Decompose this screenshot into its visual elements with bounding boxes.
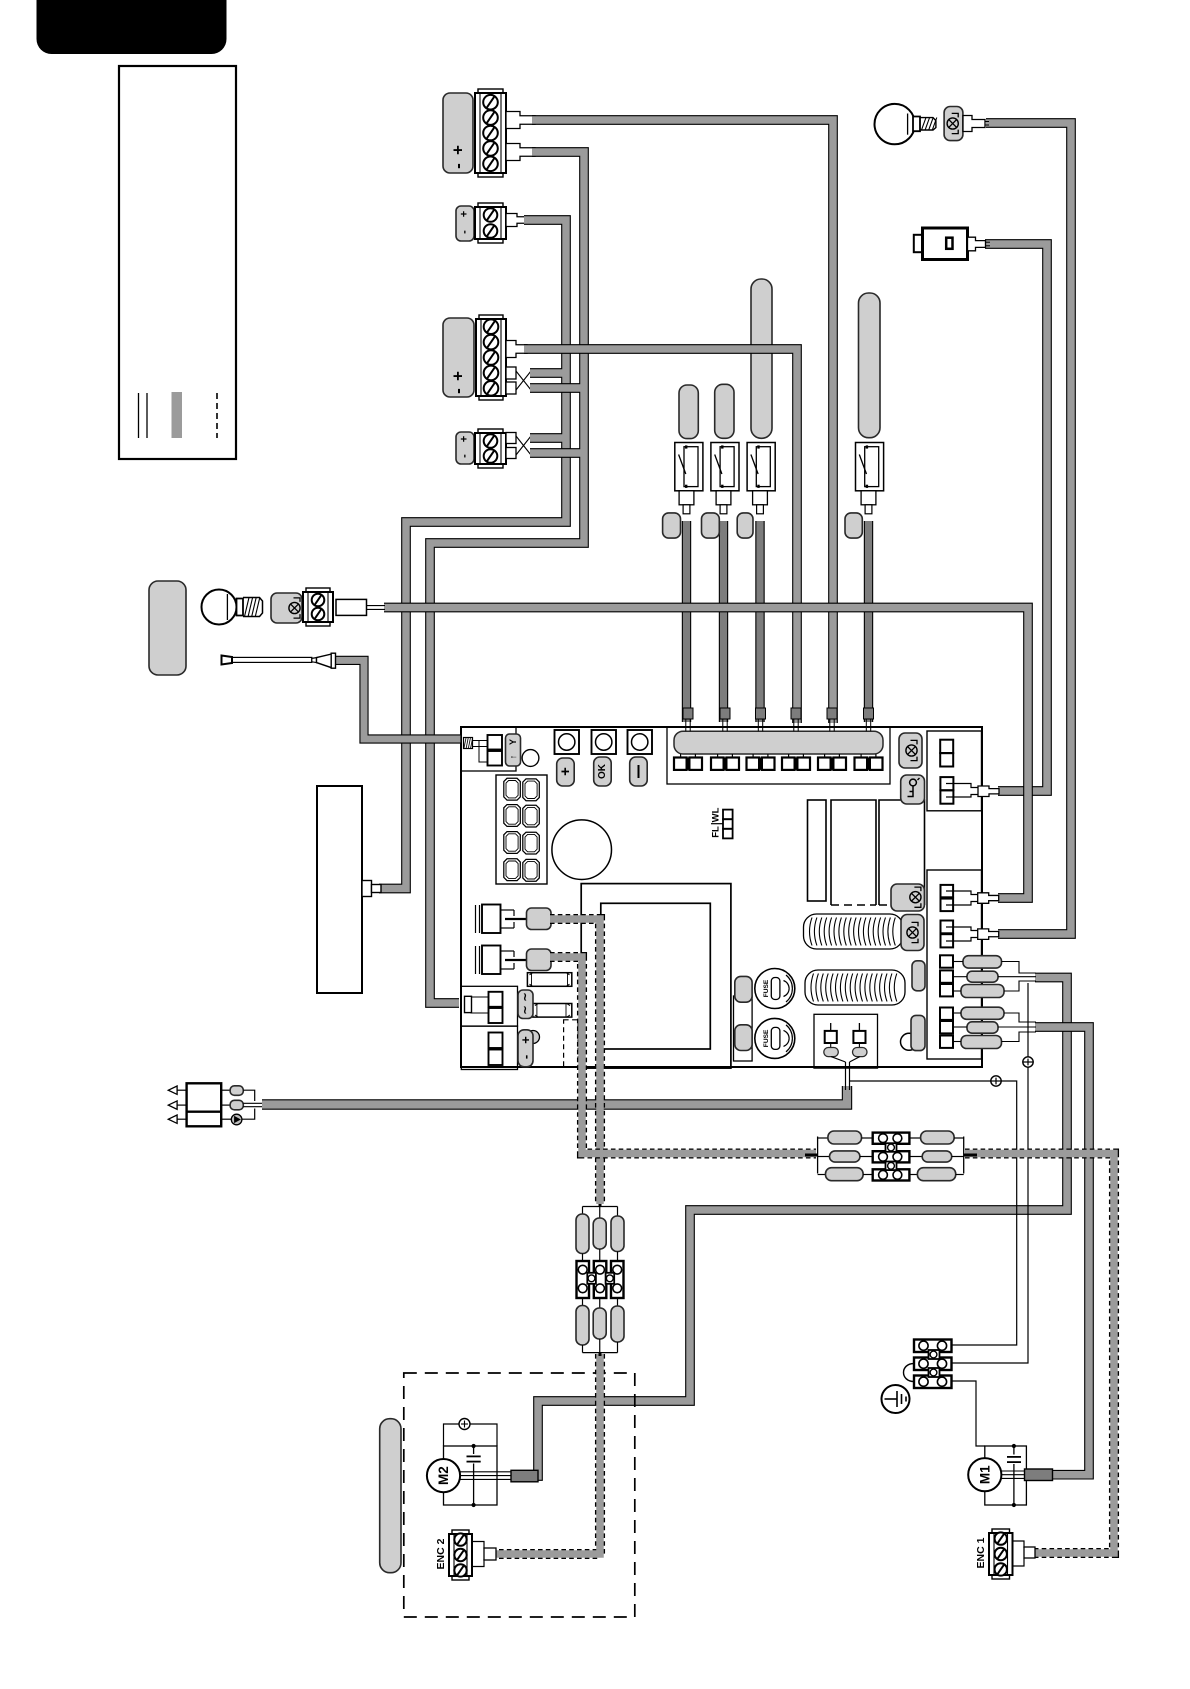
legend thin pair line sample <box>138 393 140 438</box>
encoder wire ENC2 from board <box>550 919 600 1204</box>
display unit <box>317 786 362 993</box>
JB1 left labels <box>828 1131 862 1144</box>
top bulb tab <box>963 116 985 132</box>
encoder plug 1 connector <box>527 908 552 930</box>
relay K2 <box>831 800 876 905</box>
svg-text:-: - <box>449 388 468 394</box>
svg-text:∼: ∼ <box>520 1005 532 1014</box>
switch SW2 tab <box>716 491 731 505</box>
svg-text:FUSE: FUSE <box>763 1029 770 1047</box>
wire switch SW1 to strip <box>682 521 691 722</box>
M2 side label <box>380 1419 401 1573</box>
button B3 <box>628 730 653 754</box>
key sym box <box>901 775 925 804</box>
wire TX1 upper to board strip <box>532 120 833 723</box>
switch SW3 box <box>747 443 775 491</box>
photocell RX1 terminal block <box>478 203 503 207</box>
switch SW3 tab <box>753 491 768 505</box>
photocell TX1 label <box>443 93 473 173</box>
button B1 <box>555 730 580 754</box>
battery dashed outline <box>564 1020 579 1067</box>
input terminal strip <box>667 727 890 784</box>
board misc pads <box>901 1033 918 1050</box>
lamp sym box 3 <box>901 915 924 951</box>
photocell RX1 label <box>456 206 474 241</box>
fuse F2 <box>755 1018 795 1058</box>
photocell RX2 label <box>456 432 474 464</box>
svg-text:-: - <box>449 163 468 169</box>
varistor 1 <box>527 973 571 987</box>
legend power wire sample <box>172 392 183 438</box>
switch SW2 label <box>715 384 734 438</box>
svg-text:M2: M2 <box>436 1466 451 1485</box>
strip terminal pair 6 <box>864 708 874 719</box>
svg-text:-: - <box>518 1055 533 1059</box>
M2 output terminals <box>940 955 953 967</box>
antenna input terminals <box>488 735 503 750</box>
TX2 tab <box>506 341 527 358</box>
top bulb <box>875 104 915 144</box>
svg-text:∼: ∼ <box>520 992 532 1001</box>
lamp sym box 1 <box>899 733 922 768</box>
M1 leads <box>1001 1470 1026 1472</box>
photocell RX2 terminal block <box>478 429 503 433</box>
switch SW3 tall label <box>751 279 772 438</box>
switch SW4 tall label <box>859 293 881 438</box>
jack tab <box>968 237 986 251</box>
switch SW4 wire label <box>663 513 681 538</box>
svg-text:ENC 2: ENC 2 <box>435 1538 447 1569</box>
output tab 3 <box>978 929 999 940</box>
svg-text:+: + <box>459 436 471 442</box>
M2 leads <box>460 1471 512 1473</box>
charger sub-board <box>814 1014 878 1068</box>
battery label <box>527 1031 540 1044</box>
M2 earth link <box>444 1424 460 1446</box>
earth line to M1 <box>952 1381 986 1446</box>
JB2 top labels <box>576 1214 589 1254</box>
switch SW1 box <box>675 443 703 491</box>
buzzer circle <box>552 820 612 880</box>
encoder wire ENC1 from board <box>550 957 816 1154</box>
fuse holder <box>734 996 753 1061</box>
M2 capacitor <box>473 1446 475 1454</box>
wire top bulb to board output 3 <box>986 123 1071 934</box>
svg-text:+: + <box>518 1036 533 1044</box>
strip terminal pair 4 <box>791 708 801 719</box>
RX2 crossed tabs <box>506 433 516 444</box>
motor M2 <box>427 1459 460 1492</box>
switch SW1 tab <box>679 491 694 505</box>
JB2 bottom labels <box>582 1298 584 1306</box>
wire motor M2 power <box>514 978 1067 1477</box>
motor M1 wiring box <box>985 1446 1027 1505</box>
switch SW2 box <box>711 443 739 491</box>
svg-text:OK: OK <box>597 763 608 779</box>
JB1 right labels <box>909 1137 920 1139</box>
photocell TX2 terminal block <box>479 315 503 319</box>
varistor 2 <box>533 1004 572 1018</box>
output sub-panel 1 <box>927 731 982 811</box>
svg-text:M1: M1 <box>977 1465 992 1484</box>
JB1 terminal strip <box>873 1133 910 1144</box>
photocell TX1 terminal block <box>478 89 503 93</box>
wire photocell RX to board <box>262 1086 847 1105</box>
wire jack to board output 1 <box>985 244 1047 791</box>
JB1 right bracket <box>954 1137 964 1139</box>
switch SW4 tab <box>861 491 876 505</box>
left lamp label <box>149 581 186 675</box>
mains label <box>518 990 533 1019</box>
wire antenna to board <box>336 660 462 739</box>
wire TX2 upper to board strip <box>524 349 797 723</box>
left lamp bulb <box>202 590 237 625</box>
JB3 bridge loop <box>904 1364 915 1382</box>
antenna <box>222 656 233 665</box>
M1 capacitor <box>1013 1446 1015 1455</box>
svg-text:Y: Y <box>508 739 518 745</box>
title box <box>37 0 227 54</box>
fuse F1 <box>755 969 795 1009</box>
M2 enclosure dashed box <box>404 1373 635 1617</box>
wire switch SW3 to strip <box>755 521 764 722</box>
jack module <box>914 235 923 252</box>
junction block JB1 left bracket <box>805 1154 818 1157</box>
left lamp socket symbol <box>271 593 302 623</box>
photocell RX unit <box>187 1083 222 1126</box>
RX1 tab <box>506 214 528 227</box>
protective earth symbol <box>882 1385 910 1413</box>
svg-text:ENC 1: ENC 1 <box>975 1537 987 1568</box>
encoder input plug 1 <box>475 905 477 933</box>
lamp sym box 2 <box>891 884 924 911</box>
display unit tab <box>362 881 372 897</box>
junction JB2 bottom bracket <box>582 1345 584 1353</box>
antenna input label <box>506 734 521 766</box>
transformer <box>581 884 731 1069</box>
wire AC net: TX1 lower to board mains input with taps <box>430 152 584 1003</box>
output sub-panel 2 <box>927 870 982 1059</box>
svg-text:+: + <box>449 145 468 155</box>
svg-text:+: + <box>459 211 471 217</box>
strip terminal pair 2 <box>720 708 730 719</box>
svg-text:-: - <box>459 230 471 234</box>
relay K3 <box>879 800 925 905</box>
svg-text:FL: FL <box>711 826 722 838</box>
mains input terminal <box>461 986 517 1026</box>
M1 output terminals <box>940 1008 953 1020</box>
encoder input plug 2 <box>475 946 477 974</box>
svg-text:FUSE: FUSE <box>763 979 770 997</box>
wire switch SW4 to strip <box>864 521 873 722</box>
motor M2 wiring box <box>444 1446 498 1505</box>
photocell RX pads <box>221 1089 230 1091</box>
strip terminal pair 1 <box>683 708 693 719</box>
legend box <box>119 66 236 459</box>
encoder plug 2 connector <box>527 949 552 971</box>
earth line from charger <box>849 1081 1017 1345</box>
TX1 tab lower <box>506 144 535 161</box>
svg-text:↑: ↑ <box>508 755 518 760</box>
M2 output labels <box>963 956 1002 968</box>
antenna input hatch <box>464 738 473 749</box>
legend dashed wire sample <box>216 393 218 438</box>
top bulb socket symbol <box>944 107 963 141</box>
M1 output labels <box>961 1007 1004 1019</box>
switch SW1 label <box>679 385 698 439</box>
TX2 crossed tabs <box>506 367 516 379</box>
svg-text:-: - <box>459 454 471 458</box>
earth line from M2 output <box>952 983 1029 1363</box>
choke coil 1 <box>804 914 904 949</box>
svg-text:WL: WL <box>711 807 722 822</box>
battery terminal <box>461 1026 517 1069</box>
JB2 terminal strip <box>577 1261 590 1298</box>
strip terminal pair 5 <box>827 708 837 719</box>
LEDs <box>723 810 733 820</box>
charger pads <box>824 1048 839 1057</box>
junction block JB2 top bracket <box>599 1204 602 1207</box>
wire left bulb to board output 2 <box>384 608 1028 899</box>
left lamp tab <box>336 599 367 615</box>
TX1 tab upper <box>506 112 535 129</box>
junction block JB3 <box>914 1340 952 1353</box>
wire switch SW2 to strip <box>719 521 728 722</box>
photocell TX2 label <box>443 318 474 397</box>
output tab 2 <box>978 893 999 904</box>
wire motor M1 power <box>1028 1027 1089 1475</box>
svg-text:+: + <box>557 767 574 776</box>
left lamp terminal <box>306 588 330 592</box>
board corner hole <box>522 750 539 767</box>
choke coil 2 <box>805 970 905 1005</box>
motor M1 <box>968 1458 1001 1491</box>
7-segment display <box>496 775 547 884</box>
strip terminal pair 3 <box>756 708 766 719</box>
board antenna input box <box>461 727 516 771</box>
wire RX net: RX1 to display unit with taps <box>379 220 566 889</box>
output tab 1 <box>978 786 999 797</box>
switch SW4 box <box>856 443 884 491</box>
control board outline <box>461 727 982 1067</box>
svg-text:+: + <box>449 371 468 381</box>
button B2 <box>592 730 617 754</box>
relay K1 <box>808 800 827 901</box>
